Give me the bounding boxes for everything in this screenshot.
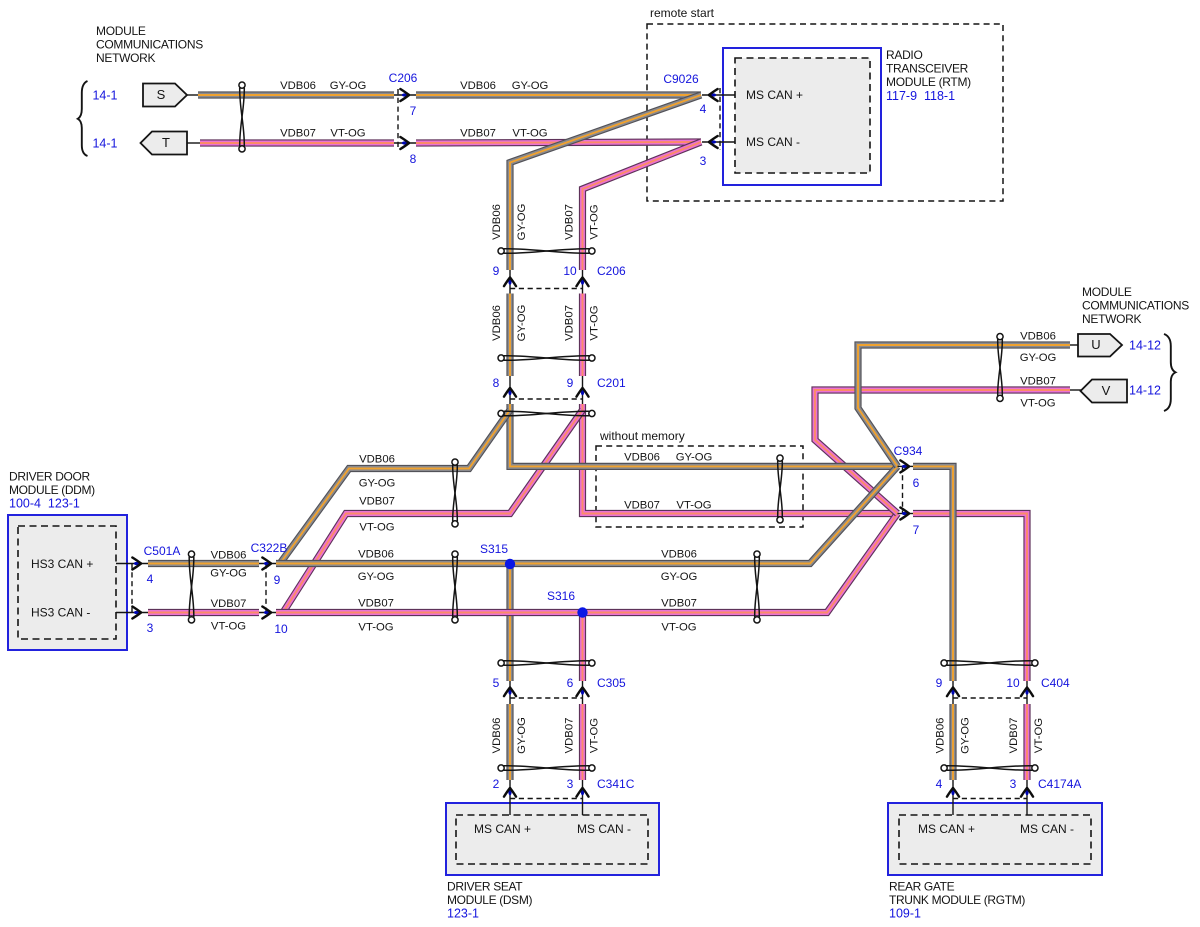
module box RTM (Radio Transceiver Module) xyxy=(723,48,881,185)
pin line C206 pin10 xyxy=(582,270,584,294)
svg-text:S315: S315 xyxy=(480,542,508,556)
svg-text:VDB07: VDB07 xyxy=(661,598,697,610)
module inner dashed box DDM (Driver Door Module) xyxy=(18,526,116,639)
wire VDB07 VT-OG C934 pin7 to C404 pin10 xyxy=(913,514,1027,682)
arrow C305 pin6 xyxy=(581,690,584,695)
svg-text:C4174A: C4174A xyxy=(1038,777,1081,791)
arrow C201 pin8 xyxy=(508,390,511,395)
svg-text:VT-OG: VT-OG xyxy=(589,718,601,753)
twisted pair symbol (S/T wires) xyxy=(239,82,245,152)
svg-text:7: 7 xyxy=(410,104,417,118)
svg-text:VT-OG: VT-OG xyxy=(661,622,696,634)
svg-text:GY-OG: GY-OG xyxy=(359,478,396,490)
svg-text:C322B: C322B xyxy=(251,541,288,555)
svg-text:VDB06: VDB06 xyxy=(460,80,496,92)
twisted pair symbol (above C404) xyxy=(941,660,1038,666)
svg-text:123-1: 123-1 xyxy=(447,906,479,920)
arrow C501A pin4 xyxy=(134,562,139,565)
wire VDB07 VT-OG C206 pin8 to C9026 pin3 xyxy=(416,142,701,143)
arrow C206 pin8 xyxy=(402,141,407,144)
wire VDB07 VT-OG C9026 pin3 down to C206 pin10 xyxy=(583,142,702,270)
svg-text:VDB07: VDB07 xyxy=(564,204,576,240)
svg-text:C341C: C341C xyxy=(597,777,635,791)
module inner dashed box DSM (Driver Seat Module) xyxy=(456,815,648,864)
svg-text:C201: C201 xyxy=(597,376,626,390)
wire VDB06 GY-OG C9026 pin4 down to C206 pin9 xyxy=(510,95,701,270)
connector C4174A dashed line (pins 4,3) xyxy=(953,798,1027,800)
svg-text:VDB06: VDB06 xyxy=(359,454,395,466)
pin line C305 pin6 xyxy=(582,681,584,704)
wire VDB06 GY-OG C404 to C4174A xyxy=(949,704,956,780)
svg-text:VDB07: VDB07 xyxy=(460,128,496,140)
wire VDB06 GY-OG C934 pin6 to tag U xyxy=(858,345,1070,466)
wire VDB06 GY-OG bus C322B pin9 / S315 to C934 pin6 xyxy=(276,466,898,563)
svg-text:6: 6 xyxy=(567,676,574,690)
svg-text:GY-OG: GY-OG xyxy=(358,571,395,583)
svg-text:MODULE (DSM): MODULE (DSM) xyxy=(447,893,532,907)
pin line C4174A pin3 into RGTM xyxy=(1026,780,1028,815)
module inner dashed box RTM (Radio Transceiver Module) xyxy=(735,58,870,173)
wire VDB06 GY-OG tag S to C206 pin7 xyxy=(198,91,394,98)
twisted pair symbol (bus at S315) xyxy=(452,551,458,623)
connector tag T xyxy=(141,132,188,155)
twisted pair symbol (U/V pair) xyxy=(997,334,1003,402)
twisted pair symbol (without memory pair) xyxy=(777,455,783,523)
svg-text:VDB07: VDB07 xyxy=(564,718,576,754)
svg-text:COMMUNICATIONS: COMMUNICATIONS xyxy=(1082,298,1189,312)
svg-text:RADIO: RADIO xyxy=(886,48,923,62)
svg-text:MS CAN -: MS CAN - xyxy=(577,822,631,836)
pin line C201 pin9 xyxy=(582,376,584,404)
svg-text:VDB07: VDB07 xyxy=(564,305,576,341)
wire VDB07 VT-OG C404 to C4174A pin3 xyxy=(1023,704,1030,780)
wire VDB06 GY-OG C201 pin8 to C934 pin6 (without memory) xyxy=(510,404,898,466)
svg-text:REAR GATE: REAR GATE xyxy=(889,879,955,893)
wire VDB06 GY-OG C305 to C341C pin2 xyxy=(506,704,513,780)
svg-text:VDB07: VDB07 xyxy=(358,598,394,610)
wire VDB07 VT-OG bus C322B pin10 / S316 to C934 pin7 xyxy=(276,514,898,613)
lead line tag V xyxy=(1070,389,1081,391)
pin line C9026 pin4 xyxy=(702,94,735,96)
pin line C4174A pin4 into RGTM xyxy=(952,780,954,815)
twisted pair symbol (above C4174A) xyxy=(941,765,1038,771)
pin line C501A pin4 xyxy=(116,563,148,565)
svg-text:VT-OG: VT-OG xyxy=(1020,398,1055,410)
arrow C404 pin10 xyxy=(1025,690,1028,695)
arrow C206 pin9 xyxy=(508,280,511,285)
svg-text:4: 4 xyxy=(936,777,943,791)
wire VDB07 VT-OG C201 pin9 to C934 pin7 (without memory) xyxy=(583,404,898,514)
svg-text:MS CAN +: MS CAN + xyxy=(474,822,531,836)
svg-text:9: 9 xyxy=(274,573,281,587)
svg-text:GY-OG: GY-OG xyxy=(516,204,528,241)
svg-text:MODULE (RTM): MODULE (RTM) xyxy=(886,75,971,89)
svg-text:9: 9 xyxy=(493,264,500,278)
svg-text:6: 6 xyxy=(913,476,920,490)
svg-text:MS CAN +: MS CAN + xyxy=(918,822,975,836)
svg-text:109-1: 109-1 xyxy=(889,906,921,920)
svg-text:C206: C206 xyxy=(597,264,626,278)
wire VDB07 VT-OG C206 pin10 to C201 pin9 xyxy=(579,294,586,377)
arrow C341C pin2 xyxy=(508,790,511,795)
svg-text:GY-OG: GY-OG xyxy=(516,305,528,342)
twisted pair symbol (above C201) xyxy=(498,355,595,361)
lead line tag T xyxy=(187,142,200,144)
svg-text:VDB06: VDB06 xyxy=(280,80,316,92)
svg-text:VDB07: VDB07 xyxy=(1020,376,1056,388)
pin line C206 pin8 xyxy=(394,142,416,144)
wire VDB06 GY-OG S315 drop to C305 xyxy=(506,564,513,681)
svg-text:VDB06: VDB06 xyxy=(491,305,503,341)
pin line C206 pin7 xyxy=(394,94,416,96)
svg-text:VDB07: VDB07 xyxy=(1008,718,1020,754)
pin line C404 pin9 xyxy=(952,681,954,704)
svg-text:GY-OG: GY-OG xyxy=(661,571,698,583)
svg-text:MS CAN -: MS CAN - xyxy=(746,135,800,149)
svg-text:5: 5 xyxy=(493,676,500,690)
svg-text:VT-OG: VT-OG xyxy=(358,622,393,634)
svg-text:VDB06: VDB06 xyxy=(491,718,503,754)
svg-text:VDB07: VDB07 xyxy=(211,598,247,610)
svg-text:GY-OG: GY-OG xyxy=(516,717,528,754)
svg-text:10: 10 xyxy=(1006,676,1020,690)
arrow C305 pin5 xyxy=(508,690,511,695)
svg-text:7: 7 xyxy=(913,523,920,537)
svg-text:9: 9 xyxy=(936,676,943,690)
arrow C4174A pin4 xyxy=(951,790,954,795)
svg-text:8: 8 xyxy=(493,376,500,390)
svg-text:remote start: remote start xyxy=(650,6,715,20)
module inner dashed box RGTM (Rear Gate Trunk Module) xyxy=(899,815,1091,864)
module box DDM (Driver Door Module) xyxy=(8,515,127,650)
connector tag V xyxy=(1081,380,1128,403)
svg-text:VT-OG: VT-OG xyxy=(1033,718,1045,753)
svg-text:2: 2 xyxy=(493,777,500,791)
svg-text:C305: C305 xyxy=(597,676,626,690)
left curly brace xyxy=(78,81,88,156)
arrow C4174A pin3 xyxy=(1025,790,1028,795)
svg-text:GY-OG: GY-OG xyxy=(330,80,367,92)
arrow C404 pin9 xyxy=(951,690,954,695)
pin line C322B pin10 xyxy=(259,612,276,614)
twisted pair symbol (bus right) xyxy=(754,551,760,623)
svg-text:14-1: 14-1 xyxy=(92,136,117,150)
lead line tag U xyxy=(1070,344,1078,346)
svg-text:GY-OG: GY-OG xyxy=(960,717,972,754)
svg-text:T: T xyxy=(162,135,170,150)
connector C341C dashed line (pins 2,3) xyxy=(510,798,583,800)
twisted pair symbol (above C305) xyxy=(498,660,595,666)
arrow C206 pin10 xyxy=(581,280,584,285)
connector tag S xyxy=(143,84,187,107)
twisted pair symbol (DDM pair) xyxy=(188,551,194,623)
arrow C341C pin3 xyxy=(581,790,584,795)
wire VDB06 GY-OG C934 pin6 to C404 pin9 xyxy=(913,466,953,681)
svg-text:GY-OG: GY-OG xyxy=(210,568,247,580)
wire VDB07 VT-OG C934 pin7 to tag V xyxy=(815,390,1070,514)
pin line C934 pin6 xyxy=(898,465,914,467)
wire VDB06 GY-OG C501A pin4 to C322B pin9 xyxy=(148,560,259,567)
svg-text:VDB06: VDB06 xyxy=(1020,331,1056,343)
connector C322B dashed line (pins 9,10) xyxy=(265,564,267,613)
svg-text:8: 8 xyxy=(410,152,417,166)
connector C305 dashed line (pins 5,6) xyxy=(510,697,583,699)
svg-text:VDB06: VDB06 xyxy=(491,204,503,240)
svg-text:MODULE (DDM): MODULE (DDM) xyxy=(9,483,95,497)
svg-text:without memory: without memory xyxy=(599,429,685,443)
svg-text:3: 3 xyxy=(700,154,707,168)
remote start dashed group box xyxy=(647,24,1003,201)
twisted pair symbol (below C201) xyxy=(498,410,595,416)
connector C9026 dashed line (pins 4,3) xyxy=(719,88,721,150)
svg-text:100-4 123-1: 100-4 123-1 xyxy=(9,496,80,510)
svg-text:VT-OG: VT-OG xyxy=(330,128,365,140)
svg-text:MS CAN +: MS CAN + xyxy=(746,88,803,102)
svg-text:3: 3 xyxy=(1010,777,1017,791)
svg-text:VT-OG: VT-OG xyxy=(211,621,246,633)
svg-text:MODULE: MODULE xyxy=(1082,285,1132,299)
wire VDB07 VT-OG C305 to C341C pin3 xyxy=(579,704,586,780)
pin line C934 pin7 xyxy=(898,513,914,515)
svg-text:14-12: 14-12 xyxy=(1129,383,1161,397)
svg-text:VT-OG: VT-OG xyxy=(676,500,711,512)
svg-text:HS3 CAN -: HS3 CAN - xyxy=(31,605,90,619)
pin line C305 pin5 xyxy=(509,681,511,704)
splice S315 xyxy=(505,559,515,569)
svg-text:GY-OG: GY-OG xyxy=(1020,352,1057,364)
pin line C206 pin9 xyxy=(509,270,511,294)
twisted pair symbol (upper branch pair) xyxy=(452,459,458,527)
svg-text:10: 10 xyxy=(563,264,577,278)
svg-text:9: 9 xyxy=(567,376,574,390)
arrow C501A pin3 xyxy=(134,611,139,614)
svg-text:VDB06: VDB06 xyxy=(661,549,697,561)
svg-text:C9026: C9026 xyxy=(663,72,699,86)
lead line tag S xyxy=(187,94,198,96)
svg-text:VDB06: VDB06 xyxy=(935,718,947,754)
arrow C9026 pin4 xyxy=(711,93,716,96)
pin line C201 pin8 xyxy=(509,376,511,404)
svg-text:4: 4 xyxy=(700,102,707,116)
module box DSM (Driver Seat Module) xyxy=(446,803,659,875)
svg-text:S: S xyxy=(157,87,166,102)
right curly brace xyxy=(1164,334,1176,411)
svg-text:C206: C206 xyxy=(389,71,418,85)
svg-text:C934: C934 xyxy=(894,444,923,458)
pin line C404 pin10 xyxy=(1026,681,1028,704)
twisted pair symbol (above C206 pins 9,10) xyxy=(498,248,595,254)
connector tag U xyxy=(1078,334,1122,357)
svg-text:NETWORK: NETWORK xyxy=(96,51,156,65)
pin line C341C pin3 into DSM xyxy=(582,780,584,815)
wire VDB06 GY-OG C206 pin7 to C9026 pin4 xyxy=(416,91,701,98)
svg-text:GY-OG: GY-OG xyxy=(676,452,713,464)
svg-text:VDB06: VDB06 xyxy=(211,550,247,562)
connector C404 dashed line (pins 9,10) xyxy=(953,697,1027,699)
svg-text:VDB06: VDB06 xyxy=(358,549,394,561)
svg-text:C501A: C501A xyxy=(144,544,181,558)
arrow C934 pin6 xyxy=(902,465,907,468)
svg-text:COMMUNICATIONS: COMMUNICATIONS xyxy=(96,37,203,51)
connector C934 dashed line (pins 6,7) xyxy=(902,466,904,513)
svg-text:U: U xyxy=(1091,337,1100,352)
wire VDB07 VT-OG C501A pin3 to C322B pin10 xyxy=(148,609,259,616)
arrow C201 pin9 xyxy=(581,390,584,395)
connector C201 dashed line (pins 8,9) xyxy=(510,398,583,400)
twisted pair symbol (above C341C) xyxy=(498,765,595,771)
svg-text:14-1: 14-1 xyxy=(92,88,117,102)
svg-text:VDB07: VDB07 xyxy=(359,496,395,508)
svg-text:VT-OG: VT-OG xyxy=(589,204,601,239)
pin line C341C pin2 into DSM xyxy=(509,780,511,815)
arrow C934 pin7 xyxy=(902,512,907,515)
wire VDB06 GY-OG C201 pin8 branch to C322B pin9 xyxy=(280,410,510,564)
svg-text:VT-OG: VT-OG xyxy=(359,522,394,534)
pin line C501A pin3 xyxy=(116,612,148,614)
svg-text:TRANSCEIVER: TRANSCEIVER xyxy=(886,61,969,75)
arrow C206 pin7 xyxy=(402,93,407,96)
svg-text:V: V xyxy=(1102,383,1111,398)
splice S316 xyxy=(577,607,587,617)
connector C501A dashed line (pins 4,3) xyxy=(131,564,133,613)
arrow C9026 pin3 xyxy=(711,140,716,143)
module box RGTM (Rear Gate Trunk Module) xyxy=(888,803,1102,875)
svg-text:NETWORK: NETWORK xyxy=(1082,312,1142,326)
connector C206 dashed line (pins 7,8) xyxy=(397,89,399,150)
svg-text:3: 3 xyxy=(147,621,154,635)
svg-text:GY-OG: GY-OG xyxy=(512,80,549,92)
wire VDB06 GY-OG C206 pin9 to C201 pin8 xyxy=(506,294,513,377)
svg-text:14-12: 14-12 xyxy=(1129,338,1161,352)
arrow C322B pin10 xyxy=(264,611,269,614)
without memory dashed group box xyxy=(596,446,803,527)
svg-text:HS3 CAN +: HS3 CAN + xyxy=(31,557,93,571)
connector C206 dashed line (pins 9,10) xyxy=(510,288,583,290)
svg-text:S316: S316 xyxy=(547,589,575,603)
pin line C322B pin9 xyxy=(259,563,276,565)
svg-text:VDB06: VDB06 xyxy=(624,452,660,464)
svg-text:117-9 118-1: 117-9 118-1 xyxy=(886,89,955,103)
svg-text:VDB07: VDB07 xyxy=(624,500,660,512)
wire VDB07 VT-OG tag T to C206 pin8 xyxy=(200,139,394,146)
pin line C9026 pin3 xyxy=(702,141,735,143)
svg-text:DRIVER DOOR: DRIVER DOOR xyxy=(9,469,91,483)
svg-text:C404: C404 xyxy=(1041,676,1070,690)
svg-text:TRUNK MODULE (RGTM): TRUNK MODULE (RGTM) xyxy=(889,893,1025,907)
svg-text:MODULE: MODULE xyxy=(96,24,146,38)
wire VDB07 VT-OG S316 drop to C305 pin6 xyxy=(579,613,586,682)
svg-text:3: 3 xyxy=(567,777,574,791)
svg-text:VT-OG: VT-OG xyxy=(589,305,601,340)
arrow C322B pin9 xyxy=(264,562,269,565)
svg-text:10: 10 xyxy=(274,622,288,636)
svg-text:4: 4 xyxy=(147,572,154,586)
svg-text:DRIVER SEAT: DRIVER SEAT xyxy=(447,879,523,893)
svg-text:MS CAN -: MS CAN - xyxy=(1020,822,1074,836)
svg-text:VDB07: VDB07 xyxy=(280,128,316,140)
svg-text:VT-OG: VT-OG xyxy=(512,128,547,140)
wire VDB07 VT-OG C201 pin9 branch to C322B pin10 xyxy=(283,410,583,613)
